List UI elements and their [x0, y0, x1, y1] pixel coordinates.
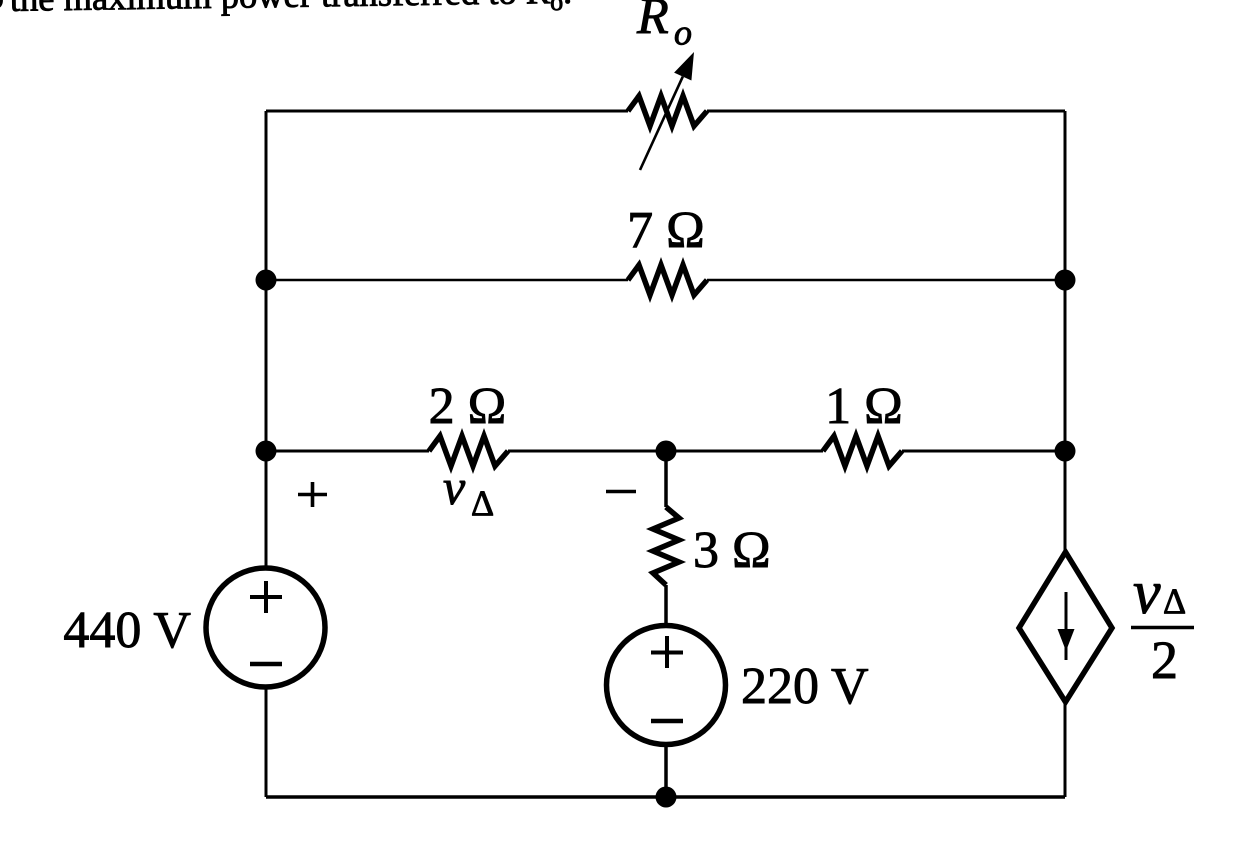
node dot: left 7-ohm row	[256, 270, 277, 291]
svg-text:2: 2	[1151, 630, 1178, 690]
label v-delta over 2 (controlled source value)	[1131, 559, 1194, 690]
minus sign inside 440V source	[250, 662, 282, 667]
svg-text:220 V: 220 V	[741, 658, 869, 715]
node dot: bottom center	[656, 787, 677, 808]
svg-text:R: R	[636, 0, 669, 45]
voltage source V2 220V	[607, 626, 726, 745]
node dot: center middle row	[656, 441, 677, 462]
svg-text:the maximum power transferred: the maximum power transferred to Ro.	[10, 0, 573, 24]
svg-text:1 Ω: 1 Ω	[825, 378, 903, 435]
dependent current source I1 (diamond)	[1019, 552, 1112, 702]
node dot: right 7-ohm row	[1055, 270, 1076, 291]
minus sign of v-delta polarity	[606, 490, 636, 494]
plus sign of v-delta polarity	[298, 482, 327, 507]
svg-text:440 V: 440 V	[63, 602, 191, 659]
svg-text:o: o	[0, 0, 4, 16]
svg-text:v: v	[1133, 559, 1161, 627]
minus sign inside 220V source	[651, 719, 683, 724]
arrow of variable resistor Ro	[640, 52, 694, 170]
voltage source V1 440V	[206, 568, 325, 687]
wire bottom rail	[266, 795, 1065, 799]
wire top rail	[266, 110, 1065, 113]
wire middle row	[266, 450, 1065, 453]
resistor R4 3 ohm (vertical)	[653, 507, 679, 585]
svg-text:Δ: Δ	[1163, 581, 1186, 621]
wire 3-ohm branch	[664, 451, 668, 797]
svg-text:3 Ω: 3 Ω	[693, 522, 771, 579]
node dot: left middle row	[256, 441, 277, 462]
resistor R2 2 ohm	[429, 436, 508, 466]
arrow inside dependent source	[1058, 592, 1075, 660]
resistor Ro (variable, top)	[628, 96, 707, 126]
svg-text:v: v	[443, 459, 466, 515]
svg-text:o: o	[674, 13, 692, 53]
wire right rail	[1064, 111, 1067, 797]
wire left rail	[265, 111, 268, 797]
resistor R1 7 ohm	[628, 265, 707, 295]
node dot: right middle row	[1055, 441, 1076, 462]
plus sign inside 220V source	[651, 636, 683, 668]
svg-text:7 Ω: 7 Ω	[627, 202, 705, 259]
svg-text:2 Ω: 2 Ω	[429, 378, 507, 435]
label v-delta (middle row)	[443, 459, 494, 523]
plus sign inside 440V source	[250, 581, 282, 613]
wire 7-ohm row	[266, 279, 1065, 282]
resistor R3 1 ohm	[823, 436, 902, 466]
svg-text:Δ: Δ	[471, 483, 494, 523]
caption: problem text cut off at top edge	[0, 0, 572, 24]
